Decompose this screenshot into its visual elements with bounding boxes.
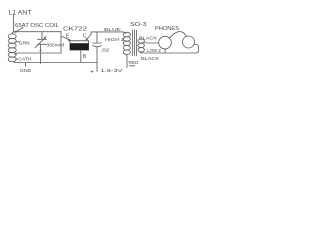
transformer core bbox=[132, 30, 134, 56]
wire top rail (tank top) bbox=[14, 31, 62, 33]
capacitor C2 bypass bbox=[96, 32, 98, 43]
wire emitter tap (y53) bbox=[15, 53, 62, 55]
collector lead bbox=[87, 35, 92, 40]
svg-text:SO-3: SO-3 bbox=[130, 22, 147, 28]
leader arrow to coil L1 bbox=[15, 28, 23, 33]
primary bottom lead (RED) to battery minus bbox=[126, 54, 128, 68]
svg-text:BLUE: BLUE bbox=[104, 27, 121, 33]
svg-text:L1 ANT: L1 ANT bbox=[9, 11, 32, 17]
wire emitter riser bbox=[60, 32, 62, 53]
base lead bbox=[80, 50, 82, 63]
svg-text:CK722: CK722 bbox=[63, 27, 87, 33]
svg-text:365mmf: 365mmf bbox=[47, 43, 65, 48]
coil tap GRN bbox=[16, 41, 19, 43]
wire antenna down-lead bbox=[13, 14, 15, 32]
svg-text:RED: RED bbox=[129, 60, 139, 65]
battery minus mark bbox=[130, 65, 136, 67]
svg-text:B: B bbox=[83, 54, 87, 60]
svg-text:LOW Z: LOW Z bbox=[147, 48, 161, 53]
battery positive stub bbox=[96, 63, 98, 72]
wire secondary top to left jack bbox=[144, 42, 159, 43]
transformer T1 primary bbox=[123, 32, 126, 33]
phone jack J2 bbox=[183, 36, 195, 48]
inductor L1 (oscillator coil) bbox=[12, 32, 14, 34]
svg-text:GND: GND bbox=[20, 68, 32, 73]
capacitor C1 365mmf variable bbox=[41, 32, 43, 39]
svg-text:BLACK: BLACK bbox=[139, 35, 158, 40]
phones cord arc bbox=[170, 32, 187, 38]
svg-text:BLACK: BLACK bbox=[141, 56, 160, 61]
phone jack J1 bbox=[159, 36, 172, 49]
emitter lead bbox=[62, 36, 70, 40]
wire collector to transformer (BLUE) bbox=[91, 31, 123, 33]
svg-text:»CATH: »CATH bbox=[16, 57, 32, 62]
svg-text:+: + bbox=[90, 69, 94, 76]
svg-text:.02: .02 bbox=[101, 48, 111, 53]
transistor body bbox=[70, 41, 89, 50]
ground label GND bbox=[25, 63, 27, 67]
wire secondary bottom to right jack bbox=[140, 45, 199, 54]
svg-text:GRN: GRN bbox=[19, 40, 30, 45]
transformer T1 secondary bbox=[138, 39, 144, 43]
svg-text:PHONES: PHONES bbox=[155, 26, 180, 32]
svg-text:1.5-3V: 1.5-3V bbox=[101, 68, 124, 74]
wire bottom ground rail bbox=[14, 62, 97, 64]
jack J1 contact tick bbox=[164, 49, 166, 53]
svg-text:HIGH Z: HIGH Z bbox=[105, 37, 125, 43]
